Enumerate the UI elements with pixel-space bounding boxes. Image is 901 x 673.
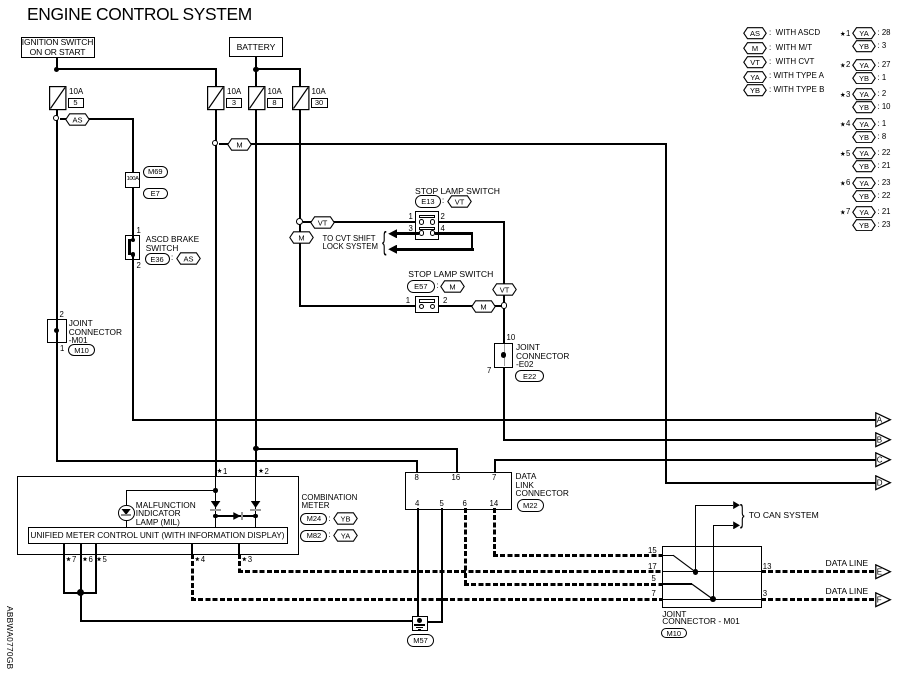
svg-text:YB: YB	[340, 514, 350, 523]
svg-text:E: E	[876, 567, 881, 576]
svg-text:YA: YA	[750, 73, 759, 82]
svg-text:YA: YA	[859, 179, 868, 188]
svg-text:YA: YA	[859, 120, 868, 129]
svg-text:M: M	[751, 44, 757, 53]
svg-text:VT: VT	[317, 218, 327, 227]
svg-text:YA: YA	[859, 90, 868, 99]
svg-text:M: M	[236, 140, 242, 149]
svg-text:YA: YA	[859, 29, 868, 38]
svg-text:YA: YA	[859, 208, 868, 217]
svg-text:YA: YA	[340, 531, 349, 540]
svg-text:YB: YB	[749, 86, 759, 95]
svg-text:YA: YA	[859, 61, 868, 70]
svg-text:B: B	[876, 436, 881, 445]
svg-text:YB: YB	[859, 42, 869, 51]
svg-text:YB: YB	[859, 74, 869, 83]
svg-text:A: A	[876, 415, 882, 424]
svg-text:M: M	[449, 282, 455, 291]
svg-text:YB: YB	[859, 133, 869, 142]
svg-text:M: M	[480, 303, 486, 312]
svg-text:F: F	[876, 595, 881, 604]
svg-text:VT: VT	[500, 285, 510, 294]
svg-text:C: C	[876, 456, 882, 465]
svg-text:YB: YB	[859, 192, 869, 201]
svg-text:AS: AS	[183, 254, 193, 263]
svg-text:YB: YB	[859, 103, 869, 112]
svg-text:AS: AS	[749, 29, 759, 38]
svg-text:VT: VT	[750, 58, 760, 67]
svg-text:YB: YB	[859, 221, 869, 230]
svg-text:YA: YA	[859, 149, 868, 158]
svg-text:D: D	[876, 479, 882, 488]
svg-text:M: M	[298, 233, 304, 242]
svg-text:YB: YB	[859, 162, 869, 171]
svg-text:VT: VT	[454, 197, 464, 206]
svg-text:AS: AS	[72, 115, 82, 124]
